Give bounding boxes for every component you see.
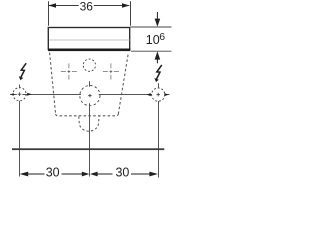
center dashed circle (drill hole marker) <box>80 86 100 106</box>
bottom dimension line: left 30 segment a <box>26 173 45 175</box>
right fixing circle center cross <box>156 93 160 97</box>
arrowhead right of left circle <box>27 93 31 96</box>
right lightning bolt arrowhead <box>154 78 158 82</box>
center circle center cross <box>88 94 91 97</box>
right vertical centerline <box>158 101 160 178</box>
left circle top tick <box>19 85 21 89</box>
top dimension left arrowhead <box>48 3 56 8</box>
svg-text:10: 10 <box>146 33 160 47</box>
bowtie arrowhead pointing right at center <box>82 172 90 177</box>
bottom dimension line: left 30 segment b <box>62 173 84 175</box>
right lightning bolt stroke <box>157 65 162 79</box>
finished wall line <box>12 148 164 150</box>
WC dashed outline bottom edge <box>56 114 119 116</box>
bottom left arrowhead (points left) <box>20 172 29 177</box>
bottom dimension line: right 30 segment b <box>131 173 151 175</box>
right fixing dashed circle <box>152 88 165 101</box>
cistern cover rectangle <box>48 28 129 50</box>
horizontal centerline right-of-center segment <box>99 94 152 96</box>
right dimension lower arrow tail <box>156 59 158 63</box>
top dimension line (36) left segment <box>49 5 79 7</box>
bowtie arrowhead pointing left at center <box>90 172 98 177</box>
right dimension top extension line <box>131 26 172 28</box>
horizontal centerline right end segment <box>165 94 170 96</box>
svg-text:30: 30 <box>46 165 60 179</box>
top dimension right arrowhead <box>122 3 130 8</box>
left fixing circle center cross <box>18 92 22 96</box>
svg-text:6: 6 <box>159 31 165 43</box>
right dimension upper arrowhead (down) <box>155 19 161 27</box>
left small crosshair marker <box>61 63 77 79</box>
left lightning bolt stroke <box>21 63 26 77</box>
small arrow mark left of left circle <box>11 93 14 95</box>
horizontal centerline mid segment <box>22 94 81 96</box>
bottom dimension line: right 30 segment a <box>97 173 113 175</box>
left fixing dashed circle <box>13 88 26 101</box>
right dimension upper arrow tail <box>156 12 158 20</box>
right circle top tick <box>158 83 160 88</box>
drain notch dashed U <box>79 116 99 131</box>
extension line right of top dimension <box>130 1 132 26</box>
svg-text:30: 30 <box>115 165 129 179</box>
center vertical centerline <box>89 103 91 176</box>
right small crosshair marker <box>103 63 119 79</box>
top dimension line (36) right segment <box>94 5 130 7</box>
bottom right arrowhead (points right) <box>149 172 158 177</box>
small dashed circle (top, flush pipe) <box>83 59 95 71</box>
arrowhead right of right circle <box>164 93 168 96</box>
cover seam line (light gray) <box>49 39 129 41</box>
center circle top tick <box>89 81 91 87</box>
right dimension lower arrowhead (up) <box>155 51 161 59</box>
WC dashed outline right edge <box>118 53 128 114</box>
horizontal centerline y=94.4 left end segment <box>10 94 17 96</box>
svg-text:36: 36 <box>80 0 94 14</box>
left vertical centerline (circle to bottom dimension) <box>19 101 21 177</box>
arrowhead left of right circle <box>146 93 150 96</box>
left lightning bolt arrowhead <box>19 76 23 80</box>
WC dashed outline left edge <box>50 53 56 114</box>
cover thick bottom edge <box>48 49 130 52</box>
right dimension bottom extension line <box>131 50 172 52</box>
extension line left of top dimension <box>48 1 50 26</box>
